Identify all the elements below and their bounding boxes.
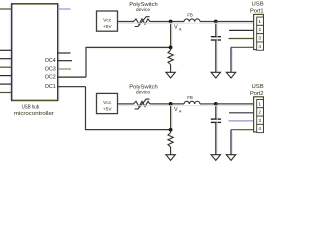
- wire Vcc to polyswitch: [118, 103, 135, 105]
- ground: [226, 72, 235, 78]
- svg-text:Port1: Port1: [250, 8, 264, 14]
- wire VA down: [170, 104, 172, 130]
- svg-text:device: device: [136, 7, 150, 13]
- pin stub left y50.3: [0, 49, 12, 51]
- svg-text:USB: USB: [252, 84, 264, 90]
- wire cap node to port pin1: [216, 103, 254, 105]
- svg-text:Vcc: Vcc: [103, 17, 112, 23]
- pin 1 cell: [257, 99, 264, 107]
- wire FB to cap node: [200, 103, 216, 105]
- Vcc +5V source for Port1: [97, 11, 118, 31]
- polyswitch device for Port1: [134, 19, 150, 24]
- wire: [118, 22, 253, 24]
- node VA junction: [169, 20, 173, 24]
- resistor pulldown for Port2: [170, 130, 172, 133]
- ferrite bead FB for Port1: [184, 19, 200, 22]
- svg-text:2: 2: [258, 110, 261, 116]
- svg-text:USB: USB: [252, 2, 264, 8]
- junction node: [169, 46, 173, 50]
- wire: [9, 4, 11, 100]
- pin 1 cell: [257, 17, 264, 25]
- cap node junction: [214, 102, 218, 106]
- pin stub left y75.6: [0, 75, 12, 77]
- ground: [211, 72, 220, 78]
- pin OC4: [45, 58, 72, 64]
- pin stub left y92.5: [0, 92, 12, 94]
- svg-text:OC4: OC4: [45, 58, 56, 64]
- svg-text:4: 4: [258, 44, 261, 50]
- svg-text:4: 4: [258, 126, 261, 132]
- svg-text:2: 2: [258, 27, 261, 33]
- pin 2 cell: [257, 25, 264, 33]
- pin OC3: [45, 66, 71, 72]
- resistor pulldown for Port1: [170, 47, 172, 50]
- svg-text:3: 3: [258, 36, 261, 42]
- svg-text:OC1: OC1: [45, 84, 56, 90]
- wire FB to cap node: [200, 21, 216, 23]
- junction node: [169, 128, 173, 132]
- wire data- stub pin3: [229, 38, 254, 40]
- wire pin4 to ground: [231, 46, 254, 48]
- wire OC1 to node: [85, 129, 171, 131]
- label USB hub microcontroller: [14, 105, 54, 117]
- cap node junction: [214, 20, 218, 24]
- svg-text:FB: FB: [187, 95, 193, 100]
- pin stub right: [58, 52, 71, 54]
- svg-text:device: device: [136, 90, 150, 96]
- wire OC1 riser: [85, 87, 87, 130]
- svg-text:+5V: +5V: [103, 106, 113, 112]
- wire OC2 to node: [85, 46, 170, 48]
- wire data- stub pin3: [229, 120, 254, 122]
- Vcc +5V source for Port2: [97, 93, 118, 113]
- pin stub left y67.2: [0, 66, 12, 68]
- capacitor bypass for Port2: [215, 104, 217, 119]
- wire polyswitch to node VA: [150, 21, 184, 23]
- svg-text:3: 3: [258, 118, 261, 124]
- wire pin4 to ground: [231, 129, 254, 131]
- svg-text:1: 1: [258, 19, 261, 25]
- svg-text:Port2: Port2: [250, 91, 264, 97]
- svg-text:+5V: +5V: [103, 24, 113, 30]
- svg-text:A: A: [179, 109, 182, 114]
- svg-text:FB: FB: [187, 13, 193, 18]
- ground: [226, 155, 235, 161]
- svg-text:OC3: OC3: [45, 66, 56, 72]
- wire OC2 riser: [85, 47, 87, 77]
- polyswitch device for Port2: [134, 101, 150, 106]
- svg-text:microcontroller: microcontroller: [14, 111, 54, 117]
- pin stub left y84.1: [0, 83, 12, 85]
- svg-text:V: V: [174, 25, 178, 31]
- USB hub microcontroller U1: [11, 3, 58, 101]
- svg-text:A: A: [179, 26, 182, 31]
- ground: [211, 155, 220, 161]
- ferrite bead FB for Port2: [184, 101, 200, 104]
- USB Port2 connector: [254, 97, 264, 132]
- pin 2 cell: [257, 108, 264, 116]
- wire Vcc to polyswitch: [118, 21, 135, 23]
- pin OC1: [45, 84, 86, 90]
- svg-text:USB hub: USB hub: [22, 105, 40, 111]
- svg-text:OC2: OC2: [45, 74, 56, 80]
- ground: [166, 155, 175, 161]
- wire data+ stub pin2: [229, 29, 254, 31]
- svg-text:Vcc: Vcc: [103, 100, 112, 106]
- pin stub left y58.7: [0, 58, 12, 60]
- capacitor bypass for Port1: [215, 22, 217, 37]
- svg-text:V: V: [174, 107, 178, 113]
- pin 4 cell: [257, 42, 264, 50]
- wire polyswitch to node VA: [150, 103, 184, 105]
- ground: [166, 72, 175, 78]
- svg-text:1: 1: [258, 101, 261, 107]
- wire: [118, 105, 253, 107]
- pin 3 cell: [257, 34, 264, 42]
- USB Port1 connector: [254, 14, 264, 49]
- wire cap node to port pin1: [216, 21, 254, 23]
- pin stub left y9: [0, 8, 12, 10]
- wire data+ stub pin2: [229, 112, 254, 114]
- pin OC2: [45, 74, 86, 80]
- pin 4 cell: [257, 124, 264, 132]
- pin 3 cell: [257, 116, 264, 124]
- wire VA down: [170, 22, 172, 48]
- wire upstream stub: [58, 8, 71, 10]
- node VA junction: [169, 102, 173, 106]
